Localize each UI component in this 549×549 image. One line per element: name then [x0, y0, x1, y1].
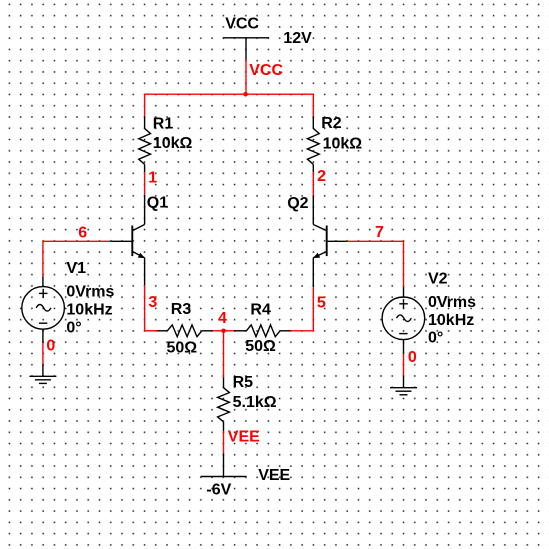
wire rail to R1 [144, 94, 146, 116]
wire node 7 horizontal [347, 240, 404, 242]
svg-text:10kΩ: 10kΩ [323, 136, 363, 153]
power symbol VCC [223, 38, 269, 60]
junction VCC rail [243, 92, 248, 97]
wire node 3 to R3 [145, 330, 157, 332]
svg-text:VCC: VCC [225, 16, 259, 33]
svg-text:6: 6 [78, 224, 87, 241]
svg-text:0Vrms: 0Vrms [428, 294, 476, 311]
svg-text:7: 7 [375, 224, 384, 241]
svg-text:R4: R4 [250, 301, 271, 318]
svg-text:R3: R3 [171, 301, 192, 318]
svg-text:Q1: Q1 [147, 194, 168, 211]
wire node 5 vertical [312, 287, 314, 331]
svg-text:50Ω: 50Ω [167, 339, 198, 356]
wire node 3 vertical [144, 285, 146, 331]
svg-text:3: 3 [148, 294, 157, 311]
resistor R4 [234, 325, 291, 337]
resistor R2 [307, 116, 319, 172]
svg-text:V1: V1 [66, 260, 86, 277]
svg-text:1: 1 [148, 170, 157, 187]
svg-text:10kΩ: 10kΩ [153, 135, 193, 152]
wire node 4 down to R5 [223, 331, 225, 378]
svg-text:12V: 12V [283, 30, 312, 47]
wire VCC rail horizontal [145, 93, 314, 95]
wire node 6 horizontal [43, 240, 111, 242]
wire rail to R2 [312, 94, 314, 116]
svg-text:0Vrms: 0Vrms [66, 284, 114, 301]
svg-text:5: 5 [317, 294, 326, 311]
resistor R3 [157, 325, 213, 337]
resistor R1 [139, 116, 151, 172]
ground right [390, 376, 417, 395]
svg-text:R1: R1 [153, 116, 174, 133]
svg-text:VEE: VEE [258, 467, 290, 484]
svg-text:0°: 0° [66, 319, 81, 336]
svg-text:R2: R2 [321, 115, 342, 132]
wire V1 to ground [42, 343, 44, 364]
svg-text:5.1kΩ: 5.1kΩ [233, 394, 277, 411]
svg-text:0°: 0° [428, 330, 443, 347]
svg-text:50Ω: 50Ω [245, 338, 276, 355]
svg-text:10kHz: 10kHz [66, 302, 112, 319]
wire node 7 down to V2 [403, 241, 405, 286]
svg-text:Q2: Q2 [287, 195, 308, 212]
svg-text:R5: R5 [233, 374, 254, 391]
svg-text:0: 0 [46, 337, 55, 354]
Q1 emitter arrow [138, 253, 145, 258]
wire node 4 to R4 [224, 330, 234, 332]
wire VCC symbol to rail [245, 60, 247, 95]
power symbol VEE [201, 453, 247, 476]
resistor R5 [218, 378, 230, 432]
transistor Q2 [313, 196, 347, 287]
svg-text:VEE: VEE [228, 429, 260, 446]
wire V2 to ground [403, 354, 405, 376]
svg-text:0: 0 [408, 349, 417, 366]
wire R5 to VEE [223, 431, 225, 453]
svg-text:V2: V2 [428, 271, 448, 288]
Q2 emitter arrow [313, 253, 320, 258]
wire R4 to node 5 [290, 330, 313, 332]
svg-text:-6V: -6V [206, 481, 231, 498]
source V2 [382, 287, 425, 354]
svg-text:VCC: VCC [249, 62, 283, 79]
wire R3 to node 4 [213, 330, 224, 332]
wire R1 to Q1 collector [144, 172, 146, 195]
junction node 4 [221, 329, 226, 334]
svg-text:10kHz: 10kHz [428, 312, 474, 329]
ground left [29, 364, 56, 383]
svg-text:4: 4 [218, 310, 227, 327]
svg-text:2: 2 [317, 168, 326, 185]
source V1 [22, 276, 65, 343]
transistor Q1 [110, 195, 144, 285]
wire node 6 down to V1 [42, 241, 44, 276]
wire R2 to Q2 collector [312, 172, 314, 196]
